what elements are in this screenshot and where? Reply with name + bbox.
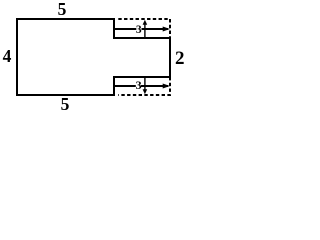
dimension line 3 (top), arrow right [115, 28, 168, 30]
dimension line 3 (bottom), arrow right [115, 85, 168, 87]
vertical arrow (top notch height), pointing up [144, 24, 146, 39]
svg-text:4: 4 [3, 46, 12, 66]
vertical arrow (bottom notch height), pointing down [144, 77, 146, 91]
svg-text:2: 2 [175, 48, 185, 69]
label 3 (bottom) [136, 81, 141, 90]
label 3 (top) [136, 25, 141, 34]
svg-text:3: 3 [136, 24, 142, 36]
solid outline of notched plate [17, 19, 170, 95]
dashed original outline (bottom-right corner) [118, 77, 170, 95]
svg-text:5: 5 [61, 94, 70, 113]
svg-text:5: 5 [58, 0, 67, 19]
dashed original outline (top-right corner) [118, 19, 170, 38]
svg-text:3: 3 [136, 78, 142, 92]
